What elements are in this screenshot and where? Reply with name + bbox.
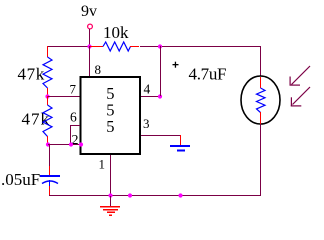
label 555	[106, 84, 114, 136]
wire cap drop	[49, 144, 50, 166]
wire pin3	[141, 135, 180, 136]
svg-text:47k: 47k	[22, 110, 51, 129]
wire pin4	[141, 96, 160, 97]
svg-text:47k: 47k	[18, 65, 45, 84]
wire 9v stub	[89, 29, 90, 46]
node junction pin1 ground	[108, 193, 112, 197]
ground main	[100, 196, 120, 216]
svg-text:4.7uF: 4.7uF	[189, 65, 227, 84]
terminal V+	[88, 24, 93, 29]
svg-text:5: 5	[106, 117, 114, 136]
resistor R3 47k	[43, 96, 52, 145]
svg-text:4: 4	[144, 82, 151, 97]
ground pin3	[170, 135, 190, 152]
photoresistor R4	[241, 76, 280, 124]
wire pin8 drop	[89, 46, 90, 76]
wire photoresistor bottom return	[260, 124, 261, 196]
svg-text:9v: 9v	[81, 3, 97, 20]
node junction pin4 branch top	[158, 44, 162, 48]
wire top rail left	[47, 46, 90, 47]
node junction pin6 loop	[69, 142, 73, 146]
node junction pin2-6 left	[46, 142, 50, 146]
resistor R2 47k	[43, 46, 52, 96]
label plus	[173, 62, 179, 68]
wire pin7	[48, 96, 80, 97]
op-amp U1 555 body	[81, 77, 141, 154]
svg-text:1: 1	[99, 157, 106, 172]
wire pin6 stub	[70, 125, 80, 126]
resistor R1 10k	[90, 42, 139, 51]
wire pin1 drop	[110, 155, 111, 195]
node junction 9v rail	[87, 44, 91, 48]
node junction pin4 corner	[158, 94, 162, 98]
svg-text:3: 3	[143, 116, 150, 131]
node junction bottom rail b	[178, 193, 182, 197]
light arrow 1	[290, 66, 311, 86]
svg-text:10k: 10k	[103, 23, 129, 42]
wire pin4 riser	[160, 46, 161, 96]
svg-text:.05uF: .05uF	[1, 170, 40, 189]
light arrow 2	[291, 87, 310, 107]
node junction pin7	[45, 94, 49, 98]
node junction bottom rail a	[128, 193, 132, 197]
wire bottom rail	[49, 195, 260, 196]
node junction pin2	[79, 142, 83, 146]
capacitor C1 .05uF	[40, 166, 60, 196]
svg-text:8: 8	[95, 62, 102, 77]
svg-text:6: 6	[70, 110, 77, 125]
wire pin6 drop	[70, 125, 71, 144]
wire photoresistor top feed	[260, 46, 261, 76]
wire top rail right	[140, 46, 260, 47]
svg-text:7: 7	[70, 82, 77, 97]
wire pin2 row	[48, 144, 81, 145]
